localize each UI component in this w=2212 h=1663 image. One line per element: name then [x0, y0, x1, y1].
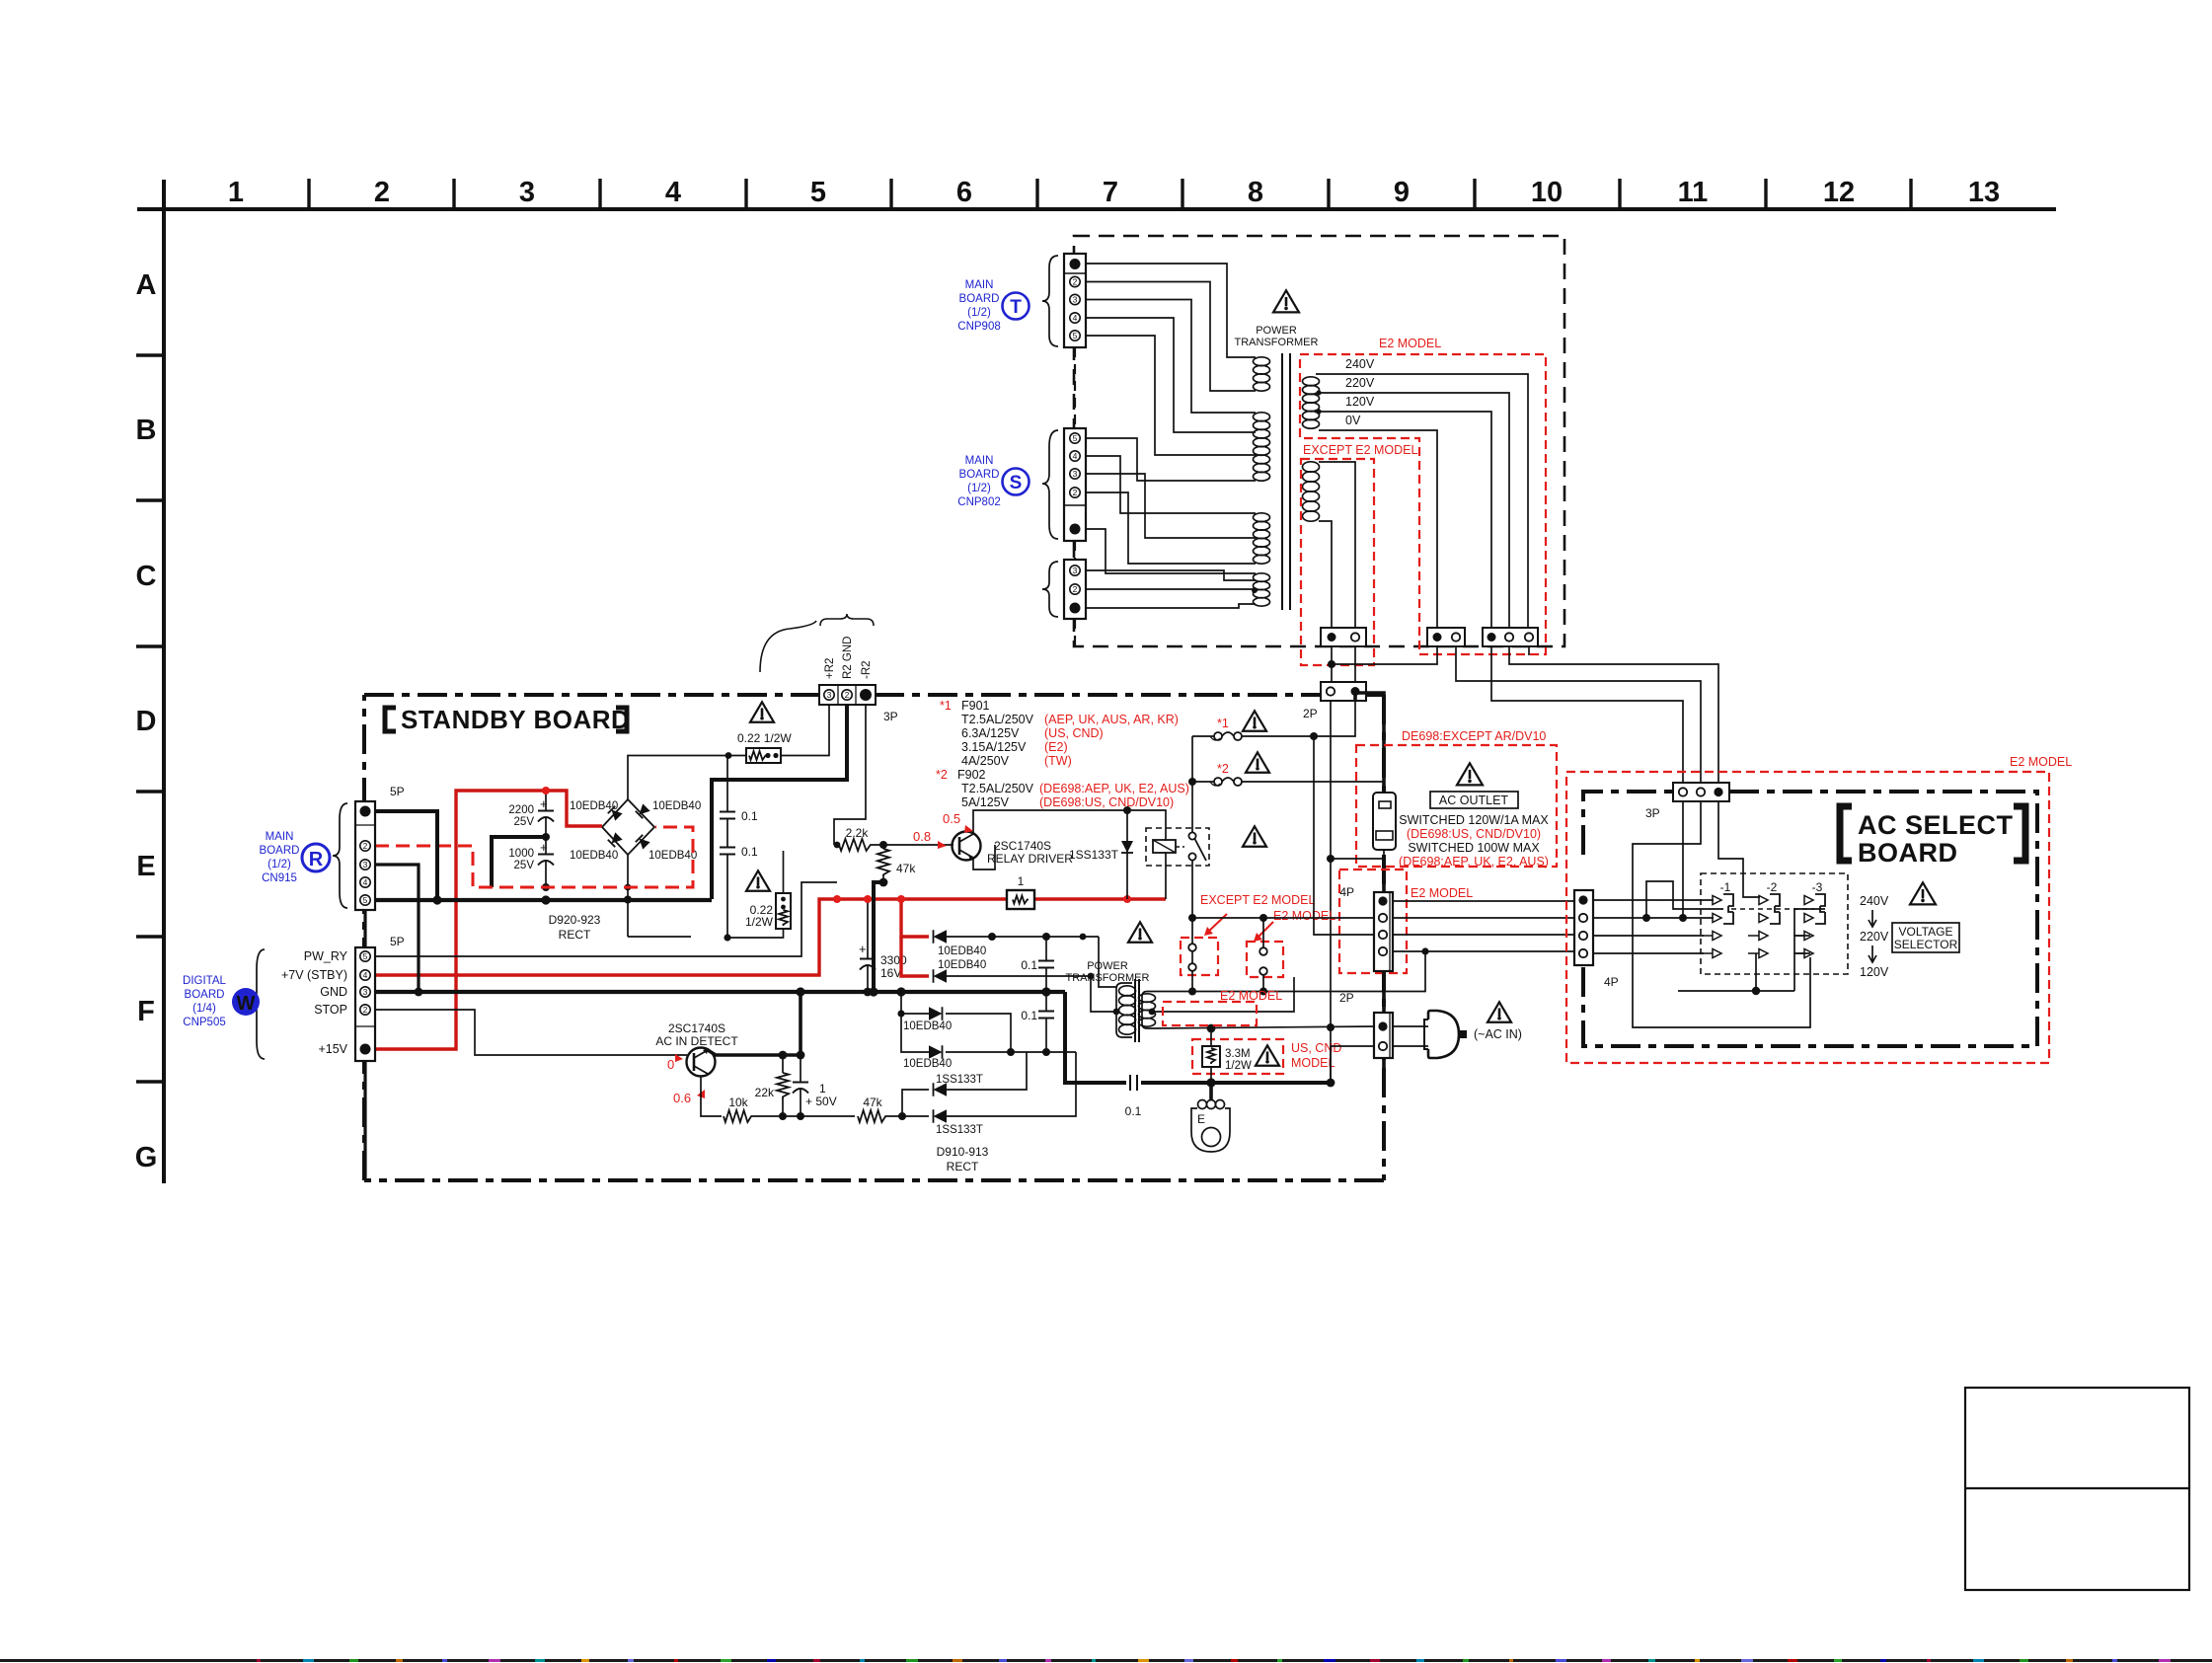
red dashed box E2 MODEL (transformer taps)	[1300, 354, 1546, 654]
svg-text:10EDB40: 10EDB40	[652, 800, 701, 812]
svg-text:AC IN DETECT: AC IN DETECT	[655, 1034, 738, 1048]
node base	[873, 844, 953, 846]
svg-text:10EDB40: 10EDB40	[938, 945, 986, 957]
connector 2P (standby board top)	[1321, 682, 1366, 701]
svg-text:+R2: +R2	[824, 658, 836, 679]
label MAIN BOARD (1/2) CN915 (blue R)	[260, 831, 330, 884]
diode 1SS133T (upper)	[902, 1090, 929, 1116]
capacitor 0.1 (to earth)	[1129, 1075, 1131, 1091]
svg-text:2200: 2200	[508, 804, 534, 816]
svg-text:MAIN: MAIN	[266, 831, 294, 843]
diode 10EDB40 (D923)	[901, 1014, 929, 1052]
red dashed box US CND MODEL	[1192, 1039, 1283, 1074]
T2 primary feed wires	[1099, 937, 1116, 987]
svg-text:10EDB40: 10EDB40	[903, 1020, 952, 1032]
warning triangle (T2)	[1128, 922, 1152, 942]
warning triangle above 0.22 vertical	[746, 870, 770, 890]
svg-text:5P: 5P	[390, 935, 405, 948]
svg-text:+ 50V: + 50V	[805, 1095, 837, 1108]
svg-text:RECT: RECT	[947, 1160, 979, 1173]
svg-text:*1: *1	[1217, 717, 1229, 730]
relay contact	[1188, 832, 1195, 839]
diode 1SS133T (relay clamp)	[1126, 810, 1128, 899]
svg-text:25V: 25V	[514, 816, 535, 828]
svg-text:(1/2): (1/2)	[267, 859, 291, 870]
selector switch -2	[1748, 894, 1780, 958]
thick L to 0.1/E cap	[1065, 992, 1126, 1083]
T2 secondary mid tap	[1152, 977, 1294, 1012]
svg-text:16V: 16V	[880, 966, 901, 980]
svg-text:AC SELECT: AC SELECT	[1858, 810, 2014, 840]
svg-text:5: 5	[363, 895, 368, 905]
resistor 2.2k	[839, 839, 873, 851]
warning triangle US CND	[1256, 1045, 1279, 1065]
fuse F902	[1192, 781, 1214, 783]
svg-text:1SS133T: 1SS133T	[936, 1124, 983, 1136]
svg-text:-3: -3	[1812, 880, 1823, 894]
cap wires	[545, 791, 547, 811]
svg-text:MAIN: MAIN	[965, 279, 994, 291]
svg-text:3.15A/125V: 3.15A/125V	[961, 740, 1027, 754]
capacitor 1 50V	[793, 1082, 808, 1084]
svg-text:(US, CND): (US, CND)	[1044, 726, 1104, 740]
transistor 2SC1740S AC IN DETECT	[687, 1048, 716, 1077]
Q1 emitter wire	[973, 845, 995, 869]
T2 secondary outline + coil	[1142, 992, 1152, 1029]
svg-text:5: 5	[810, 177, 826, 208]
svg-text:220V: 220V	[1345, 376, 1375, 390]
svg-text:10: 10	[1531, 177, 1563, 208]
svg-text:F902: F902	[957, 768, 986, 782]
svg-text:RECT: RECT	[559, 928, 591, 942]
diode 10EDB40 (D920)	[934, 930, 948, 944]
T2 secondary top wire	[1152, 951, 1425, 992]
red dashed box E2 MODEL (T2 tap)	[1163, 1002, 1257, 1025]
svg-text:3P: 3P	[1645, 806, 1660, 820]
svg-text:(DE698:US, CND/DV10): (DE698:US, CND/DV10)	[1039, 795, 1174, 809]
svg-text:0.5: 0.5	[943, 811, 960, 826]
svg-text:(E2): (E2)	[1044, 740, 1068, 754]
svg-text:3: 3	[827, 690, 832, 700]
svg-text:4P: 4P	[1604, 975, 1619, 989]
connector 3P (transformer bottom-left)	[1064, 560, 1086, 619]
svg-text:6.3A/125V: 6.3A/125V	[961, 726, 1020, 740]
relay coil to red rail	[1165, 853, 1167, 899]
svg-text:RELAY DRIVER: RELAY DRIVER	[987, 852, 1073, 866]
svg-text:2: 2	[374, 177, 390, 208]
svg-text:3: 3	[1073, 294, 1078, 304]
cable bundle curve to transformer 3P	[760, 621, 816, 672]
jumper EXCEPT E2 MODEL (red dashed box)	[1181, 938, 1218, 975]
svg-text:E: E	[1197, 1112, 1205, 1126]
svg-text:120V: 120V	[1345, 395, 1375, 409]
svg-text:4A/250V: 4A/250V	[961, 754, 1010, 768]
svg-text:E2 MODEL: E2 MODEL	[1220, 989, 1282, 1003]
svg-text:0.1: 0.1	[741, 845, 758, 859]
svg-text:*2: *2	[1217, 762, 1229, 776]
svg-text:POWER: POWER	[1087, 960, 1128, 972]
capacitor 0.1 (upper)	[720, 811, 735, 813]
bridge rectifier D920-923 diamond	[602, 799, 654, 855]
wire STOP to AC IN DETECT base	[375, 1010, 687, 1055]
svg-text:3.3M: 3.3M	[1225, 1048, 1251, 1060]
svg-text:S: S	[1010, 473, 1023, 493]
border ruler column ticks	[309, 179, 1911, 209]
svg-text:BOARD: BOARD	[260, 845, 300, 857]
resistor 3.3M (boxed)	[1210, 1028, 1212, 1046]
svg-text:240V: 240V	[1860, 894, 1889, 908]
svg-text:DIGITAL: DIGITAL	[183, 975, 226, 987]
label DIGITAL BOARD (1/4) CNP505 (blue W)	[183, 975, 260, 1028]
diode 1SS133T (lower)	[934, 1109, 948, 1123]
capacitor 0.1 (lower)	[720, 847, 735, 849]
svg-text:D920-923: D920-923	[549, 913, 601, 927]
svg-text:GND: GND	[320, 985, 347, 999]
label POWER TRANSFORMER	[1235, 325, 1319, 348]
svg-text:+7V (STBY): +7V (STBY)	[281, 968, 347, 982]
svg-text:D910-913: D910-913	[937, 1145, 989, 1159]
warning triangle AC IN	[1487, 1002, 1511, 1021]
svg-text:1: 1	[1018, 874, 1025, 888]
EXCEPT E2 winding wires	[1319, 462, 1355, 628]
brace for 3P connector	[1042, 562, 1058, 617]
red wire to 10EDB40 pair	[901, 899, 929, 937]
brace for connector T	[1042, 256, 1058, 346]
warning triangle near relay	[1243, 826, 1266, 846]
wire fuse column	[1191, 736, 1193, 832]
connector 3P (+R2 / R2 GND / -R2)	[819, 685, 876, 705]
svg-text:W: W	[237, 993, 256, 1015]
label D910-913 RECT	[937, 1145, 989, 1173]
svg-text:10EDB40: 10EDB40	[570, 800, 618, 812]
svg-text:US, CND: US, CND	[1291, 1041, 1341, 1055]
earth terminal E	[1209, 1083, 1213, 1101]
selector switch -1	[1702, 894, 1733, 958]
svg-text:0.1: 0.1	[1021, 958, 1037, 972]
0.22 vertical wires	[783, 851, 785, 893]
svg-text:3P: 3P	[883, 710, 898, 723]
svg-text:T2.5AL/250V: T2.5AL/250V	[961, 782, 1034, 795]
junction node A1/B1 link	[1332, 646, 1437, 664]
svg-text:2.2k: 2.2k	[846, 826, 870, 840]
fuse F901 output wire	[1242, 701, 1355, 736]
svg-text:STOP: STOP	[314, 1003, 347, 1017]
svg-text:EXCEPT E2 MODEL: EXCEPT E2 MODEL	[1200, 893, 1316, 907]
E2 MODEL tap wires 240V/220V/120V/0V	[1316, 374, 1528, 628]
svg-text:4: 4	[665, 177, 681, 208]
border ruler column numbers 1-13	[228, 177, 2000, 208]
connector CNP908 (T) 5P	[1064, 254, 1086, 347]
selector dashed box	[1701, 873, 1848, 974]
red dashed box around 4P	[1339, 869, 1407, 973]
wire 2P pin1 down	[1330, 701, 1332, 859]
svg-text:G: G	[135, 1142, 158, 1173]
warning triangle (near 0.22)	[750, 702, 774, 721]
labels 10EDB40 pair	[938, 945, 986, 971]
svg-text:+: +	[859, 942, 867, 956]
svg-text:11: 11	[1678, 177, 1709, 208]
svg-text:AC OUTLET: AC OUTLET	[1439, 794, 1509, 807]
svg-text:120V: 120V	[1860, 965, 1889, 979]
svg-text:SWITCHED 100W MAX: SWITCHED 100W MAX	[1408, 841, 1540, 855]
svg-text:2P: 2P	[1339, 991, 1354, 1005]
svg-text:3: 3	[363, 860, 368, 869]
title AC SELECT BOARD	[1840, 806, 1852, 861]
wires 4P left side	[1192, 917, 1374, 919]
svg-text:*1: *1	[940, 699, 952, 713]
brace for connector S	[1042, 430, 1058, 539]
label MAIN BOARD (1/2) CNP908 (blue T)	[957, 279, 1029, 333]
svg-text:(DE698:AEP, UK, E2, AUS): (DE698:AEP, UK, E2, AUS)	[1399, 855, 1549, 869]
svg-text:1: 1	[819, 1082, 826, 1096]
red wire +15V to bridge	[375, 791, 602, 1049]
transformer primary winding E2 (taps)	[1303, 377, 1320, 428]
red dashed box DE698:EXCEPT AR/DV10	[1356, 745, 1557, 867]
wire 0.22 to 3P pin3	[781, 705, 829, 756]
svg-text:CNP505: CNP505	[183, 1017, 225, 1028]
thick black wire cap junction	[492, 837, 546, 887]
svg-text:-R2: -R2	[861, 660, 873, 679]
AC plug symbol	[1393, 1025, 1428, 1027]
svg-text:3: 3	[1073, 566, 1078, 575]
wire C1 to AC select 3P pin1	[1491, 646, 1683, 783]
thick link 4P to 2P plug	[1382, 971, 1386, 1013]
svg-text:R2 GND: R2 GND	[842, 637, 854, 679]
label 2SC1740S RELAY DRIVER	[987, 839, 1073, 866]
capacitor 2200 25V	[538, 810, 554, 812]
Q2 collector thick	[708, 1050, 801, 1055]
selector common dashed link	[1731, 908, 1814, 910]
svg-text:13: 13	[1968, 177, 2000, 208]
wires connector T to secondary windings	[1086, 264, 1256, 455]
cap 0.1 (right lower)	[1038, 1011, 1054, 1013]
label D920-923 RECT	[549, 913, 601, 942]
svg-text:E: E	[136, 851, 155, 882]
svg-text:25V: 25V	[514, 860, 535, 871]
warning triangle AC select	[1910, 882, 1936, 904]
relay (dashed box with coil and contact)	[1146, 828, 1209, 866]
svg-text:TRANSFORMER: TRANSFORMER	[1235, 337, 1319, 348]
svg-text:47k: 47k	[863, 1096, 882, 1109]
svg-text:1/2W: 1/2W	[1225, 1060, 1252, 1072]
wires connector S to secondary windings	[1086, 438, 1256, 573]
resistor 10k	[724, 1110, 753, 1122]
tap labels 240V 220V 120V 0V	[1345, 357, 1375, 427]
connector CNP802 (S) 5P	[1064, 428, 1086, 541]
svg-text:BOARD: BOARD	[959, 469, 1000, 481]
warning triangle fuse1	[1243, 711, 1266, 730]
connector 2P (transformer out B)	[1427, 628, 1465, 646]
svg-text:(TW): (TW)	[1044, 754, 1072, 768]
T2 core	[1134, 979, 1136, 1042]
svg-text:4: 4	[1073, 451, 1078, 461]
selector switch -3	[1793, 894, 1825, 958]
svg-text:(DE698:US, CND/DV10): (DE698:US, CND/DV10)	[1407, 827, 1541, 841]
svg-text:E2 MODEL: E2 MODEL	[1411, 886, 1473, 900]
svg-text:(1/2): (1/2)	[967, 307, 991, 319]
wire plug lower pin	[1331, 1046, 1374, 1083]
svg-text:*2: *2	[936, 768, 948, 782]
svg-text:2P: 2P	[1303, 707, 1318, 720]
svg-text:4: 4	[363, 970, 368, 980]
connector 2P (AC input)	[1374, 1013, 1393, 1058]
resistor 0.22 1/2W (horizontal fusible)	[746, 748, 781, 763]
red dashed box E2 MODEL (AC select)	[1566, 772, 2049, 1063]
svg-text:A: A	[136, 269, 157, 301]
svg-text:2: 2	[845, 690, 850, 700]
svg-text:3: 3	[519, 177, 535, 208]
wire bridge top to 0.22 node	[628, 756, 746, 800]
svg-text:E2 MODEL: E2 MODEL	[1273, 909, 1335, 923]
wire C3 stub	[1528, 646, 1530, 655]
svg-text:E2 MODEL: E2 MODEL	[1379, 337, 1441, 350]
wire bridge bottom down	[627, 855, 629, 937]
svg-text:C: C	[136, 561, 157, 592]
svg-text:T: T	[1010, 297, 1022, 318]
wires 3P connector to bottom winding	[1086, 570, 1256, 580]
svg-text:10EDB40: 10EDB40	[938, 959, 986, 971]
wire A pins down to 2P relay connector	[1331, 646, 1333, 683]
resistor 1 (boxed fusible)	[1007, 890, 1034, 909]
outlet rating text	[1399, 813, 1549, 869]
outlet bottom wire	[1331, 850, 1384, 859]
wire -R2 to 2.2k	[834, 705, 866, 845]
label US CND MODEL	[1291, 1041, 1341, 1070]
svg-text:EXCEPT E2 MODEL: EXCEPT E2 MODEL	[1303, 443, 1418, 457]
power transformer assembly dashed outline	[1074, 236, 1564, 646]
wire R pin3 to GND	[375, 865, 419, 992]
svg-text:5: 5	[363, 951, 368, 961]
svg-text:6: 6	[956, 177, 972, 208]
transformer secondary windings (left)	[1254, 357, 1270, 606]
svg-text:2: 2	[1073, 584, 1078, 594]
connector CNP505 (W) 5P	[355, 947, 375, 1061]
svg-text:D: D	[136, 706, 157, 737]
wire C2 to AC select 3P pin2	[1509, 646, 1718, 783]
svg-text:VOLTAGE: VOLTAGE	[1899, 925, 1953, 939]
svg-text:DE698:EXCEPT AR/DV10: DE698:EXCEPT AR/DV10	[1402, 729, 1546, 743]
diode 10EDB40 (D921)	[934, 969, 948, 983]
connector 2P (transformer out A)	[1321, 628, 1366, 646]
svg-text:9: 9	[1394, 177, 1410, 208]
svg-text:MODEL: MODEL	[1291, 1056, 1335, 1070]
jumper E2 MODEL (red dashed box)	[1247, 942, 1283, 977]
warning triangle (outlet)	[1457, 763, 1483, 785]
border ruler top line	[137, 207, 2056, 211]
brace connector R	[333, 803, 347, 908]
bottom scan edge line	[0, 1659, 2212, 1662]
svg-text:1SS133T: 1SS133T	[936, 1074, 983, 1086]
AC outlet symbol	[1373, 793, 1396, 850]
svg-text:47k: 47k	[896, 862, 916, 875]
svg-text:BOARD: BOARD	[185, 989, 225, 1001]
connector CN915 (R) 5P	[355, 801, 375, 910]
connector 3P (transformer out C)	[1483, 628, 1538, 646]
svg-text:0: 0	[667, 1057, 674, 1072]
svg-text:220V: 220V	[1860, 930, 1889, 944]
resistor 47k (vertical)	[877, 849, 889, 876]
svg-text:5: 5	[1073, 433, 1078, 443]
svg-text:240V: 240V	[1345, 357, 1375, 371]
svg-text:CNP802: CNP802	[957, 496, 1000, 508]
svg-text:1000: 1000	[508, 848, 534, 860]
thick bus R pin5	[375, 898, 712, 902]
T2 secondary bottom wire	[1152, 1026, 1374, 1028]
thick wire 47k to GND	[874, 882, 883, 992]
AC OUTLET boxed label	[1430, 792, 1518, 808]
svg-text:(AEP, UK, AUS, AR, KR): (AEP, UK, AUS, AR, KR)	[1044, 713, 1179, 726]
svg-text:10k: 10k	[728, 1096, 748, 1109]
svg-text:(DE698:AEP, UK, E2, AUS): (DE698:AEP, UK, E2, AUS)	[1039, 782, 1189, 795]
svg-text:SWITCHED 120W/1A MAX: SWITCHED 120W/1A MAX	[1399, 813, 1549, 827]
fuse spec text F901/F902	[936, 699, 1189, 809]
svg-text:-1: -1	[1720, 880, 1731, 894]
svg-text:3: 3	[1073, 469, 1078, 479]
VOLTAGE SELECTOR boxed label	[1892, 923, 1959, 952]
svg-text:4: 4	[363, 877, 368, 887]
fuse F902 output wire to AC outlet	[1242, 782, 1384, 793]
svg-text:SELECTOR: SELECTOR	[1894, 938, 1958, 951]
svg-text:F901: F901	[961, 699, 990, 713]
svg-text:B: B	[136, 415, 157, 446]
connector R link to W	[363, 910, 366, 947]
wire R2 GND thick	[712, 705, 847, 899]
svg-text:4: 4	[1073, 313, 1078, 323]
cap 0.1 (right upper)	[1038, 960, 1054, 962]
revision table	[1965, 1388, 2189, 1590]
svg-text:12: 12	[1823, 177, 1855, 208]
capacitor 1000 25V	[538, 854, 554, 856]
svg-text:2: 2	[363, 841, 368, 851]
wire PW_RY	[375, 882, 837, 956]
fuse F901	[1192, 735, 1214, 737]
svg-text:10EDB40: 10EDB40	[903, 1058, 952, 1070]
svg-text:0.22 1/2W: 0.22 1/2W	[737, 731, 792, 745]
red wire +7V STBY rail	[375, 899, 1007, 975]
cap column wires	[726, 756, 728, 812]
brace over 3P labels	[820, 614, 874, 626]
wire R pin1 thick	[375, 811, 437, 900]
svg-text:POWER: POWER	[1256, 325, 1297, 337]
resistor 22k (vertical)	[777, 1073, 789, 1098]
svg-text:BOARD: BOARD	[1858, 838, 1958, 868]
svg-text:8: 8	[1248, 177, 1263, 208]
svg-text:PW_RY: PW_RY	[304, 949, 348, 963]
T2 primary outline + coil	[1116, 983, 1132, 1037]
svg-text:(1/4): (1/4)	[192, 1003, 216, 1015]
svg-text:2: 2	[1073, 276, 1078, 286]
svg-text:0.8: 0.8	[913, 829, 931, 844]
red dashed wire pin2 loop	[375, 827, 693, 887]
resistor 47k (2nd)	[858, 1110, 887, 1122]
diode 10EDB40 (D922)	[901, 992, 929, 1014]
bottom scan color noise	[257, 1659, 2171, 1662]
svg-text:1/2W: 1/2W	[745, 915, 774, 929]
transformer primary winding EXCEPT E2	[1303, 462, 1320, 521]
svg-text:0V: 0V	[1345, 414, 1361, 427]
transformer core	[1281, 353, 1283, 610]
svg-text:T2.5AL/250V: T2.5AL/250V	[961, 713, 1034, 726]
thick stub below 2P	[1382, 1058, 1386, 1096]
svg-text:1: 1	[228, 177, 244, 208]
svg-text:2SC1740S: 2SC1740S	[668, 1021, 725, 1035]
svg-text:2SC1740S: 2SC1740S	[994, 839, 1051, 853]
warning triangle (transformer)	[1273, 290, 1299, 312]
Q1 collector wire	[973, 810, 1166, 841]
svg-text:3: 3	[363, 987, 368, 997]
svg-text:E2 MODEL: E2 MODEL	[2010, 755, 2072, 769]
svg-text:2: 2	[1073, 488, 1078, 497]
